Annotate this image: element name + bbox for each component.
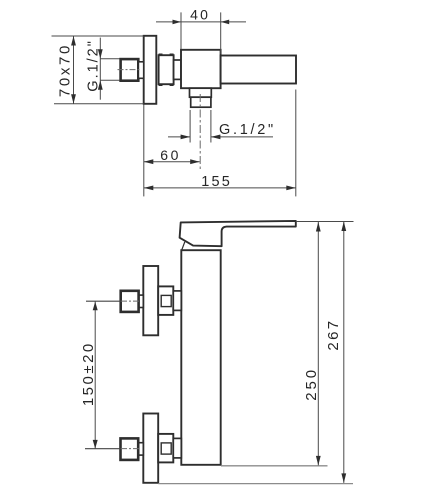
dim G.1/2 outlet: right extension line [210, 110, 212, 143]
dim 40: right extension line [220, 12, 222, 54]
svg-text:155: 155 [201, 174, 232, 190]
dim G.1/2 outlet: left extension line [189, 110, 191, 143]
dim 40: right arrow [221, 20, 230, 25]
dim 60: right arrow [190, 159, 200, 164]
dim 155: right arrow [286, 186, 296, 191]
dim G.1/2 outlet: right arrow with leader [211, 136, 273, 138]
lower mount: adapter inner square [161, 443, 171, 454]
dim 155: dimension line [144, 187, 296, 189]
label G.1/2 inlet: lower arrow (up) [98, 80, 103, 90]
dim G.1/2 outlet: left arrow [168, 136, 190, 138]
dim 150±20: top arrow [93, 302, 98, 311]
label G.1/2 inlet: leader line [99, 38, 101, 100]
sleeve collar bottom tick [159, 84, 174, 86]
svg-text:40: 40 [190, 6, 210, 22]
wall flange plate (top view) [144, 36, 157, 104]
upper mount: neck to body [173, 291, 181, 311]
dim 70x70: bottom extension line [54, 103, 144, 105]
nut neck (top view) [138, 62, 143, 79]
dim 70x70: bottom arrow [71, 94, 76, 104]
bottom extension line (escutcheon bottom) [158, 483, 353, 485]
dim 155: right extension line [295, 90, 297, 197]
dim 40: left arrow [173, 20, 182, 25]
dim 60: left extension line (wall plane) [143, 105, 145, 197]
spout (top view) [221, 56, 296, 84]
dim 267: top arrow [341, 222, 346, 232]
svg-text:70x70: 70x70 [57, 43, 74, 97]
lower mount: neck to body [173, 438, 181, 458]
svg-text:G.1/2": G.1/2" [86, 39, 102, 92]
neck to body (top view) [174, 60, 181, 79]
svg-text:150±20: 150±20 [80, 341, 97, 406]
dim 60: dimension line [144, 161, 200, 163]
upper mount: hex nut [121, 291, 139, 312]
upper mount: centerline [86, 300, 121, 302]
mixer body (front view) [181, 250, 220, 465]
dim 250: top arrow [316, 222, 321, 232]
top extension line (lever tip level) [296, 221, 354, 223]
svg-text:250: 250 [303, 367, 320, 401]
mixer body (top view) [181, 50, 221, 88]
lower mount: nut neck [138, 443, 143, 455]
dim 40: dimension line [156, 21, 246, 23]
outlet thread G1/2 (top view) [191, 97, 211, 107]
bottom extension line (body bottom) [221, 465, 328, 467]
handle lever (front view) [180, 221, 296, 246]
upper mount: escutcheon [143, 266, 158, 335]
outlet centerline [199, 94, 201, 171]
nut centerline (top view) [118, 69, 142, 71]
dim 267: bottom arrow [341, 473, 346, 483]
lower mount: escutcheon [143, 414, 158, 483]
dim 60: left arrow [144, 159, 154, 164]
dim 250: bottom arrow [316, 456, 321, 466]
connector sleeve (top view) [159, 55, 174, 84]
outlet boss (top view) [190, 88, 212, 97]
dim 150±20: dimension line [94, 301, 96, 449]
upper mount: adapter inner square [161, 295, 171, 306]
lower mount: hex nut [121, 438, 139, 460]
upper mount: nut neck [139, 295, 144, 307]
dim 267: dimension line [343, 222, 345, 483]
lower mount: adapter flange [158, 434, 173, 463]
label G.1/2 inlet: upper arrow (down) [98, 49, 103, 59]
label G.1/2 inlet: extension ticks [100, 58, 119, 60]
dim 70x70: top arrow [71, 36, 76, 46]
hex nut G1/2 inlet (top view) [121, 59, 139, 81]
dim 70x70: top extension line [52, 35, 144, 37]
lower mount: centerline [85, 448, 121, 450]
dim 40: left extension line [180, 12, 182, 49]
svg-text:60: 60 [160, 147, 181, 163]
upper mount: adapter flange [158, 286, 173, 315]
svg-text:G.1/2": G.1/2" [219, 122, 276, 138]
body top-left chamfer line (front view) [182, 242, 185, 250]
dim 150±20: bottom arrow [93, 440, 98, 449]
svg-text:267: 267 [325, 319, 342, 351]
dim 155: left arrow [144, 186, 154, 191]
dim 70x70: dimension line [73, 36, 75, 104]
sleeve collar top tick [159, 53, 174, 55]
dim 250: dimension line [317, 222, 319, 465]
